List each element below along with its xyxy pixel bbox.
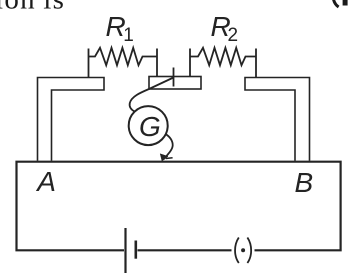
resistor R1 xyxy=(89,48,158,65)
svg-text:A: A xyxy=(35,166,56,197)
page text "(1" (cropped, top right) xyxy=(333,0,347,7)
battery cell: short plate (-) xyxy=(135,241,138,259)
wire: galvanometer to jockey arrow xyxy=(164,134,173,159)
galvanometer G xyxy=(129,106,168,145)
wire: R1 right terminal post down to middle strip xyxy=(156,49,158,78)
copper strip right (L-shaped) xyxy=(245,78,310,161)
wire: R2 left terminal post down to middle strip xyxy=(189,49,191,78)
svg-text:1: 1 xyxy=(123,25,134,46)
copper strip middle xyxy=(149,77,201,90)
label R1 xyxy=(106,11,134,46)
battery cell: mask gap in bottom wire xyxy=(124,248,138,253)
copper strip left (L-shaped) xyxy=(38,78,105,161)
page text "on is" (cropped) xyxy=(0,0,65,16)
key (plug key): mask gap in bottom wire xyxy=(232,248,255,253)
svg-text:2: 2 xyxy=(228,25,239,46)
wire: R2 right terminal post down to right strip xyxy=(255,49,257,78)
svg-text:G: G xyxy=(139,111,161,142)
key: dot xyxy=(241,248,245,252)
label R2 xyxy=(211,11,239,46)
meter bridge board (rectangle A-B) xyxy=(17,162,341,251)
terminal post on middle strip xyxy=(173,68,175,87)
resistor R2 xyxy=(190,48,256,65)
key: left paren xyxy=(235,238,239,264)
key: right paren xyxy=(247,238,251,264)
battery cell: long plate (+) xyxy=(124,228,126,273)
wire: middle strip terminal to galvanometer (diagonal + curve) xyxy=(130,78,174,112)
svg-text:B: B xyxy=(295,167,314,198)
wire: R1 left terminal post down to left strip xyxy=(88,49,90,78)
svg-text:ion is: ion is xyxy=(0,0,65,16)
jockey arrowhead xyxy=(160,154,168,161)
